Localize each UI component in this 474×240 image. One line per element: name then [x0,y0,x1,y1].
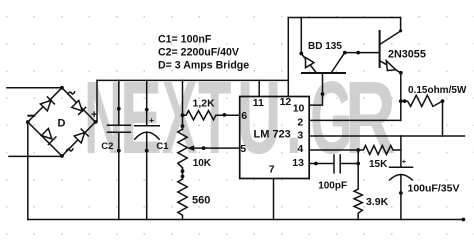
svg-text:2N3055: 2N3055 [388,48,426,60]
svg-text:3: 3 [297,130,303,142]
svg-text:3.9K: 3.9K [366,196,389,208]
svg-text:C2: C2 [101,141,113,152]
svg-text:+: + [402,157,407,166]
svg-text:0.15ohm/5W: 0.15ohm/5W [408,85,467,96]
svg-text:10K: 10K [193,158,212,169]
svg-text:7: 7 [269,164,275,176]
svg-text:1,2K: 1,2K [193,97,216,109]
svg-text:BD 135: BD 135 [308,41,342,52]
svg-text:C1= 100nF: C1= 100nF [158,34,212,46]
svg-text:15K: 15K [369,159,388,170]
svg-text:12: 12 [280,96,292,108]
svg-text:D: D [58,118,66,130]
svg-text:2: 2 [297,117,303,129]
svg-text:11: 11 [253,97,264,109]
svg-text:C2= 2200uF/40V: C2= 2200uF/40V [158,47,239,59]
svg-text:10: 10 [293,103,305,115]
svg-text:+: + [91,109,97,121]
svg-text:100uF/35V: 100uF/35V [408,182,460,194]
svg-text:13: 13 [292,157,304,169]
svg-text:6: 6 [241,110,247,122]
svg-text:LM 723: LM 723 [254,128,291,140]
svg-text:C1: C1 [156,141,169,152]
svg-text:4: 4 [297,143,303,155]
svg-text:100pF: 100pF [318,181,347,192]
svg-text:560: 560 [192,194,210,206]
svg-text:D= 3 Amps Bridge: D= 3 Amps Bridge [158,60,249,72]
svg-text:5: 5 [240,143,246,155]
svg-text:+: + [149,116,154,125]
